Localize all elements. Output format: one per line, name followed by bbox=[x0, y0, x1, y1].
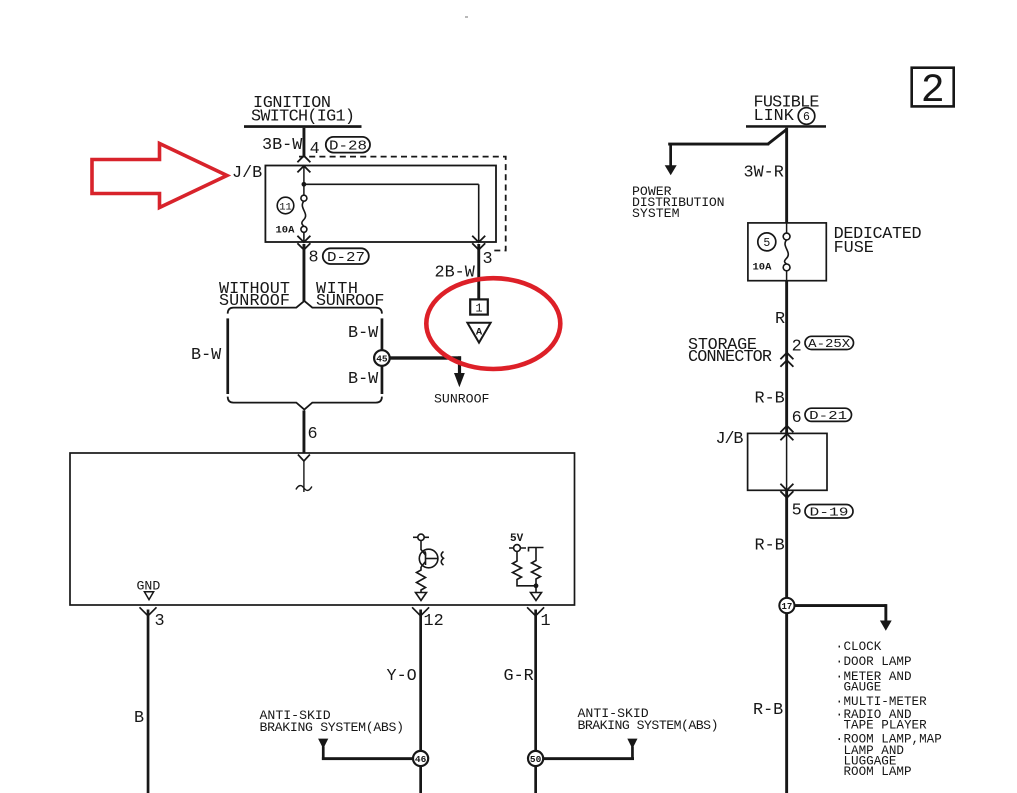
svg-text:BRAKING SYSTEM(ABS): BRAKING SYSTEM(ABS) bbox=[578, 718, 719, 733]
ECU box bbox=[70, 453, 575, 605]
connector box 1 bbox=[470, 299, 488, 315]
dedicated fuse box bbox=[748, 223, 826, 281]
J/B dashed box bbox=[299, 157, 506, 251]
svg-text:SUNROOF: SUNROOF bbox=[434, 392, 489, 407]
svg-text:11: 11 bbox=[279, 201, 292, 213]
svg-text:Y-O: Y-O bbox=[387, 667, 417, 686]
svg-text:D-27: D-27 bbox=[327, 251, 365, 266]
fuse element bbox=[301, 195, 307, 241]
svg-text:10A: 10A bbox=[276, 224, 296, 236]
dedicated fuse label bbox=[834, 225, 922, 258]
svg-text:3B-W: 3B-W bbox=[262, 136, 303, 155]
svg-text:D-28: D-28 bbox=[329, 140, 367, 155]
branch wire to loads bbox=[795, 604, 888, 621]
wire inside dedicated fuse box and J/B bbox=[786, 433, 788, 490]
wire to pin 6 bbox=[303, 411, 306, 454]
fuse number circle 11 bbox=[277, 197, 294, 214]
5v pull-up circuit bbox=[509, 545, 544, 601]
wire pin 3 to bottom bbox=[147, 610, 150, 793]
J/B box right bbox=[748, 433, 827, 490]
connector D-21 bbox=[805, 408, 852, 423]
wire pin 3 down bbox=[477, 244, 480, 300]
joint 45 bbox=[374, 350, 390, 366]
svg-text:1: 1 bbox=[475, 302, 482, 316]
svg-text:TAPE PLAYER: TAPE PLAYER bbox=[844, 719, 928, 733]
svg-text:B-W: B-W bbox=[348, 370, 379, 389]
abs label left bbox=[260, 708, 405, 735]
J/B exit chevrons bbox=[780, 484, 793, 498]
ignition switch label bbox=[251, 94, 355, 127]
pin 1 chevron bbox=[527, 607, 544, 616]
branch to power distribution bbox=[668, 130, 786, 167]
junction dot 5v bbox=[534, 583, 539, 588]
svg-text:SYSTEM: SYSTEM bbox=[632, 206, 680, 221]
pin 12 chevron bbox=[412, 607, 429, 616]
svg-text:5V: 5V bbox=[510, 533, 524, 545]
option brace top bbox=[228, 301, 382, 314]
svg-text:R-B: R-B bbox=[753, 701, 783, 720]
J/B entry chevrons bbox=[780, 426, 793, 441]
wire 45 to sunroof bbox=[390, 356, 461, 373]
take-out point A bbox=[467, 323, 490, 343]
gnd symbol bbox=[144, 592, 153, 600]
svg-text:B-W: B-W bbox=[348, 324, 379, 343]
fuse 11 internal wire bbox=[302, 166, 307, 195]
fusible link bus bar bbox=[746, 125, 826, 128]
stub wire with break bbox=[296, 461, 312, 492]
svg-text:BRAKING SYSTEM(ABS): BRAKING SYSTEM(ABS) bbox=[260, 720, 405, 735]
abs wire left bbox=[322, 747, 414, 761]
red annotation ellipse bbox=[426, 278, 560, 369]
svg-text:R: R bbox=[775, 310, 785, 329]
svg-text:2: 2 bbox=[921, 69, 945, 114]
svg-text:LINK: LINK bbox=[754, 107, 795, 126]
svg-text:45: 45 bbox=[376, 354, 388, 365]
svg-text:46: 46 bbox=[415, 754, 427, 765]
svg-text:·: · bbox=[836, 733, 844, 747]
svg-text:A-25X: A-25X bbox=[808, 337, 851, 351]
svg-text:SWITCH(IG1): SWITCH(IG1) bbox=[251, 108, 355, 127]
wire ignition to J/B bbox=[303, 128, 306, 156]
wire with sunroof bbox=[381, 318, 384, 394]
svg-text:6: 6 bbox=[308, 425, 318, 444]
svg-text:50: 50 bbox=[530, 754, 542, 765]
page number box bbox=[912, 68, 954, 114]
connector A-25X bbox=[805, 336, 854, 351]
svg-text:G-R: G-R bbox=[504, 667, 534, 686]
svg-text:A: A bbox=[476, 327, 483, 339]
transistor collector arrow bbox=[422, 551, 427, 556]
connector D-19 bbox=[805, 505, 853, 520]
wire pin 1 to bottom bbox=[534, 610, 537, 793]
svg-text:5: 5 bbox=[763, 237, 770, 250]
abs label right bbox=[578, 706, 719, 733]
svg-text:R-B: R-B bbox=[755, 390, 785, 409]
svg-text:5: 5 bbox=[792, 502, 802, 521]
dedicated fuse element bbox=[783, 223, 790, 281]
J/B solid box bbox=[265, 166, 496, 243]
label WITH SUNROOF bbox=[316, 280, 385, 311]
entry chevrons pin 4 bbox=[297, 156, 310, 173]
svg-text:D-19: D-19 bbox=[810, 505, 849, 519]
svg-text:SUNROOF: SUNROOF bbox=[219, 292, 290, 311]
svg-text:12: 12 bbox=[424, 612, 444, 631]
svg-text:B-W: B-W bbox=[191, 346, 222, 365]
fusible link label bbox=[754, 93, 820, 126]
svg-text:GAUGE: GAUGE bbox=[844, 680, 882, 694]
svg-text:MULTI-METER: MULTI-METER bbox=[844, 695, 928, 709]
svg-text:FUSE: FUSE bbox=[834, 239, 874, 258]
storage connector label bbox=[688, 336, 772, 367]
joint 50 bbox=[528, 751, 543, 766]
wire pin 12 to bottom bbox=[419, 610, 422, 793]
arrow to loads bbox=[880, 621, 892, 631]
svg-text:1: 1 bbox=[541, 612, 551, 631]
connector D-27 bbox=[323, 248, 369, 266]
speck bbox=[465, 16, 468, 18]
svg-text:R-B: R-B bbox=[755, 537, 785, 556]
svg-text:·: · bbox=[836, 708, 844, 722]
arrow power distribution bbox=[665, 165, 677, 175]
ignition bus bar bbox=[244, 125, 362, 128]
exit chevrons pin 3 bbox=[472, 236, 485, 250]
svg-text:17: 17 bbox=[781, 602, 792, 612]
svg-text:DOOR LAMP: DOOR LAMP bbox=[844, 655, 912, 669]
svg-text:8: 8 bbox=[309, 248, 319, 267]
svg-text:SUNROOF: SUNROOF bbox=[316, 292, 385, 311]
pin 3 chevron bbox=[140, 607, 157, 616]
internal branch wire to pin 3 bbox=[304, 184, 479, 242]
connector D-28 bbox=[326, 137, 370, 155]
svg-text:D-21: D-21 bbox=[809, 409, 847, 423]
exit chevrons pin 8 bbox=[297, 236, 310, 250]
svg-text:3W-R: 3W-R bbox=[744, 163, 784, 182]
svg-text:10A: 10A bbox=[753, 261, 773, 273]
arrow to sunroof bbox=[454, 373, 465, 387]
abs arrow left bbox=[318, 739, 328, 749]
joint 46 bbox=[413, 751, 428, 766]
load list bbox=[836, 640, 942, 779]
abs wire right bbox=[543, 747, 635, 761]
svg-text:2: 2 bbox=[792, 338, 802, 357]
wire without sunroof bbox=[226, 318, 229, 394]
entry chevron pin 6 bbox=[298, 455, 310, 462]
transistor circuit bbox=[413, 534, 444, 600]
svg-text:B: B bbox=[134, 709, 144, 728]
abs arrow right bbox=[627, 739, 637, 749]
svg-text:·: · bbox=[836, 640, 844, 654]
svg-text:ROOM LAMP: ROOM LAMP bbox=[844, 765, 912, 779]
storage connector chevrons bbox=[780, 353, 793, 367]
power distribution label bbox=[632, 184, 725, 221]
fuse number circle 5 bbox=[758, 233, 776, 251]
option brace bottom bbox=[228, 397, 382, 410]
svg-text:6: 6 bbox=[803, 111, 810, 124]
svg-text:3: 3 bbox=[155, 612, 165, 631]
main wire right column bbox=[785, 128, 788, 793]
svg-text:J/B: J/B bbox=[232, 164, 262, 183]
svg-text:J/B: J/B bbox=[716, 430, 744, 449]
svg-text:6: 6 bbox=[792, 409, 802, 428]
svg-text:·: · bbox=[836, 695, 844, 709]
joint 17 bbox=[779, 598, 794, 613]
wire pin 8 down bbox=[303, 244, 306, 301]
svg-text:·: · bbox=[836, 670, 844, 684]
svg-text:3: 3 bbox=[483, 250, 493, 269]
svg-text:·: · bbox=[836, 655, 844, 669]
red annotation arrow bbox=[92, 144, 227, 208]
svg-text:CONNECTOR: CONNECTOR bbox=[688, 348, 772, 367]
label WITHOUT SUNROOF bbox=[219, 280, 290, 311]
svg-text:CLOCK: CLOCK bbox=[844, 640, 882, 654]
